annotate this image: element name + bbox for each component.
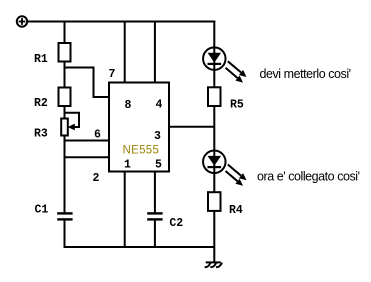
LED D1 (203, 47, 226, 70)
label NE555 (123, 144, 160, 156)
label pin 3 (154, 130, 161, 143)
IC U1 NE555 box (109, 83, 169, 172)
wire pin 4 to top rail (154, 22, 156, 83)
capacitor C1 (57, 213, 72, 219)
label R4 (229, 204, 243, 217)
wire pin 8 to top rail (124, 22, 126, 83)
ground (205, 262, 222, 267)
svg-text:R3: R3 (34, 128, 48, 141)
svg-text:R4: R4 (229, 204, 243, 217)
svg-text:6: 6 (94, 128, 101, 141)
label pin 6 (94, 128, 101, 141)
label pin 7 (109, 68, 116, 81)
label C2 (169, 217, 183, 230)
annotation devi metterlo cosi' (260, 67, 351, 81)
svg-text:ora e' collegato cosi': ora e' collegato cosi' (257, 169, 360, 183)
label pin 4 (156, 98, 163, 111)
label pin 8 (125, 99, 132, 112)
svg-text:R5: R5 (230, 99, 244, 112)
LED D1 arrows (226, 61, 247, 82)
svg-text:2: 2 (93, 172, 100, 185)
svg-text:8: 8 (125, 99, 132, 112)
LED D2 arrows (226, 165, 247, 186)
label R5 (230, 99, 244, 112)
svg-text:R1: R1 (34, 53, 48, 66)
label R3 (34, 128, 48, 141)
resistor R1 (59, 43, 71, 62)
wire pin 1 to bottom rail (124, 172, 126, 248)
resistor R2 (59, 88, 71, 107)
power supply symbol VCC (17, 16, 27, 26)
svg-text:7: 7 (109, 68, 116, 81)
wire top rail (27, 21, 215, 23)
wire C1 to bottom rail (64, 219, 66, 248)
wire pin 3 to right rail (169, 126, 214, 128)
label R2 (34, 97, 48, 110)
annotation ora e' collegato cosi' (257, 169, 360, 183)
svg-text:devi metterlo cosi': devi metterlo cosi' (260, 67, 351, 81)
wire pin 7 (65, 68, 110, 98)
label pin 2 (93, 172, 100, 185)
svg-text:3: 3 (154, 130, 161, 143)
LED D2 (203, 151, 226, 174)
label C1 (35, 203, 49, 216)
label pin 1 (124, 159, 131, 172)
wire bottom rail (65, 246, 215, 248)
capacitor C2 (147, 213, 162, 219)
wire pin 2 (65, 156, 110, 158)
svg-text:NE555: NE555 (123, 144, 160, 156)
wire left rail (64, 22, 66, 214)
svg-text:R2: R2 (34, 97, 48, 110)
svg-text:C1: C1 (35, 203, 49, 216)
resistor R5 (208, 87, 221, 106)
svg-text:4: 4 (156, 98, 163, 111)
potentiometer R3 (61, 113, 79, 136)
wire pin 5 to C2 (154, 172, 156, 214)
svg-text:1: 1 (124, 159, 131, 172)
wire right rail (213, 21, 215, 262)
label pin 5 (155, 159, 162, 172)
svg-text:C2: C2 (169, 217, 183, 230)
resistor R4 (208, 192, 221, 211)
svg-text:5: 5 (155, 159, 162, 172)
wire pin 6 (65, 140, 110, 142)
wire C2 to bottom rail (154, 219, 156, 247)
label R1 (34, 53, 48, 66)
